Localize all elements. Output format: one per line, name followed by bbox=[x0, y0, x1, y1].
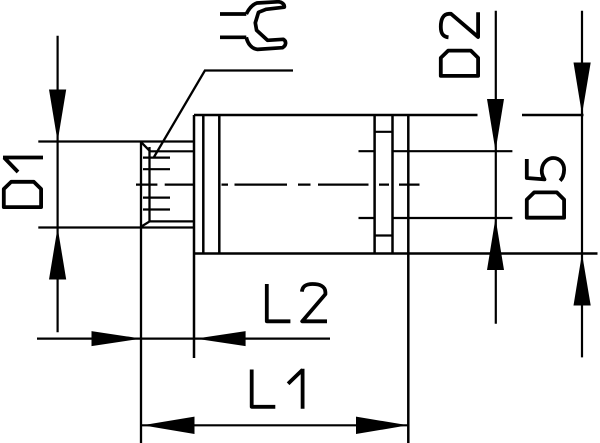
D1 top arrow bbox=[49, 90, 66, 142]
L2 left arrow bbox=[92, 331, 142, 346]
label L2 bbox=[267, 284, 327, 321]
body vertical groove right bbox=[391, 115, 394, 254]
wrench icon handle bottom line bbox=[220, 35, 246, 39]
body bottom edge with extension to D5 line bbox=[194, 252, 598, 255]
D5 top arrow bbox=[574, 63, 591, 115]
thread crest line 2 bbox=[143, 168, 170, 170]
body vertical groove left bbox=[373, 115, 376, 254]
body right face / L1 right extension bbox=[407, 115, 410, 443]
L1 dimension line bbox=[142, 424, 408, 426]
thread crest line 1 bbox=[143, 157, 170, 159]
L1 right arrow bbox=[356, 417, 408, 434]
L1 left arrow bbox=[143, 417, 195, 434]
D2 bottom arrow bbox=[487, 218, 504, 270]
leader line from wrench to thread flats bbox=[154, 71, 293, 158]
wrench icon handle top line bbox=[220, 12, 246, 16]
body vertical at collar 2 bbox=[218, 115, 221, 254]
bore line top right / D2 top extension bbox=[392, 150, 513, 152]
D5 bottom arrow bbox=[574, 254, 591, 306]
label D1 bbox=[3, 158, 43, 208]
bore line bottom left stub bbox=[359, 217, 376, 219]
thread crest line 4 bbox=[143, 208, 170, 210]
thread bottom chamfer bbox=[141, 221, 150, 226]
body left face / L2 right extension bbox=[193, 115, 196, 358]
D2 dimension line bbox=[495, 11, 497, 324]
D1 bottom arrow bbox=[49, 228, 66, 280]
groove top line bbox=[375, 131, 393, 133]
D1 dimension line bbox=[56, 36, 58, 333]
groove bottom line bbox=[375, 234, 393, 236]
wrench icon open-end head bbox=[246, 2, 285, 50]
thread OD top line / D1 top extension line bbox=[38, 140, 194, 142]
D2 top arrow bbox=[487, 99, 504, 151]
label L1 bbox=[252, 369, 303, 409]
thread root bottom line bbox=[150, 220, 194, 222]
bore line top left stub bbox=[359, 150, 376, 152]
thread top chamfer bbox=[141, 142, 150, 151]
thread root top line bbox=[150, 150, 195, 152]
L2 dimension line bbox=[37, 338, 330, 340]
thread second vertical bbox=[148, 147, 150, 221]
label D2 bbox=[441, 12, 478, 76]
thread crest line 3 bbox=[143, 197, 170, 199]
thread left end face / L dimensions left extension line bbox=[140, 142, 142, 443]
body vertical at collar 1 bbox=[202, 115, 205, 254]
thread OD bottom line / D1 bottom extension line bbox=[38, 226, 194, 228]
bore line bottom right / D2 bottom extension bbox=[392, 217, 513, 219]
D5 dimension line bbox=[581, 11, 583, 358]
L2 right arrow bbox=[196, 331, 246, 346]
label D5 bbox=[527, 158, 564, 218]
centerline dash-dot bbox=[136, 184, 420, 186]
body top edge with extension to D2/D5 (gap at D2 line) bbox=[194, 114, 584, 117]
